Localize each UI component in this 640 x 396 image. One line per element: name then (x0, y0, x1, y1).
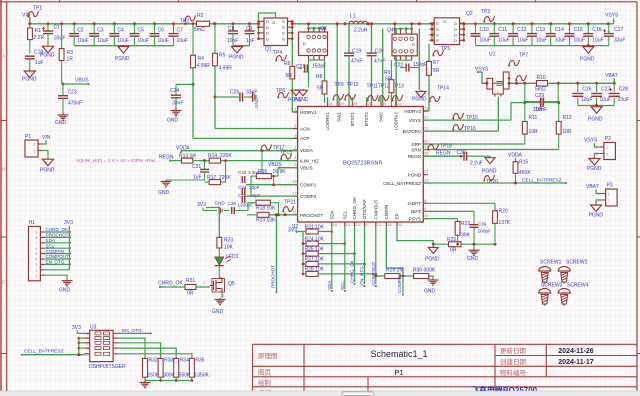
svg-text:CMPIN: CMPIN (384, 205, 389, 220)
svg-text:10: 10 (84, 351, 89, 356)
svg-text:TP16: TP16 (464, 126, 476, 132)
svg-text:GND: GND (215, 201, 226, 206)
svg-text:CHRG_OK: CHRG_OK (352, 196, 357, 220)
svg-text:33uF: 33uF (614, 38, 625, 44)
svg-text:Schematic1_1: Schematic1_1 (370, 349, 427, 359)
svg-text:P2: P2 (605, 136, 611, 142)
svg-text:EN_OTG: EN_OTG (46, 260, 65, 265)
svg-text:D: D (303, 41, 306, 46)
svg-text:4.99R: 4.99R (219, 66, 233, 72)
svg-text:SRP: SRP (412, 142, 421, 147)
svg-text:13: 13 (346, 223, 350, 227)
svg-text:VBUS: VBUS (268, 162, 282, 168)
svg-text:D: D (454, 38, 457, 43)
svg-text:C21: C21 (296, 64, 305, 70)
svg-text:CELL_BATPRESZ: CELL_BATPRESZ (24, 349, 64, 355)
svg-text:GND: GND (467, 256, 479, 262)
svg-text:R18 10K: R18 10K (256, 205, 276, 211)
svg-text:VDDA: VDDA (508, 153, 523, 159)
svg-text:U1: U1 (489, 52, 496, 58)
svg-text:10uF: 10uF (574, 38, 585, 44)
svg-text:Q3: Q3 (320, 26, 327, 32)
svg-text:TP1: TP1 (33, 6, 42, 12)
svg-text:SCREW3: SCREW3 (541, 283, 563, 289)
svg-text:2024-11-17: 2024-11-17 (558, 359, 594, 366)
svg-text:C28: C28 (619, 87, 628, 93)
svg-text:23: 23 (424, 107, 428, 111)
svg-text:3.3nF: 3.3nF (248, 170, 260, 175)
svg-text:1R: 1R (67, 57, 74, 63)
svg-text:1uF: 1uF (35, 60, 44, 66)
svg-text:HIDRV1: HIDRV1 (300, 110, 317, 115)
svg-text:D: D (266, 37, 269, 42)
svg-text:4: 4 (294, 156, 296, 160)
svg-text:20: 20 (424, 140, 428, 144)
svg-text:3V3: 3V3 (64, 220, 73, 226)
svg-text:33uF: 33uF (618, 97, 629, 103)
svg-text:D: D (266, 25, 269, 30)
svg-text:GND: GND (158, 190, 170, 196)
svg-text:7: 7 (294, 146, 296, 150)
svg-text:A: A (2, 54, 5, 59)
svg-text:C17: C17 (614, 27, 623, 33)
svg-text:29: 29 (353, 102, 357, 106)
svg-text:C10: C10 (480, 27, 489, 33)
svg-text:3V3: 3V3 (288, 228, 297, 234)
svg-text:10uF: 10uF (97, 38, 108, 44)
svg-text:GND: GND (424, 289, 436, 295)
svg-text:CHRG_OK: CHRG_OK (158, 281, 183, 287)
svg-text:10uF: 10uF (600, 97, 611, 103)
svg-text:S: S (282, 31, 285, 36)
svg-text:C5: C5 (138, 28, 145, 34)
svg-text:R2: R2 (197, 13, 204, 19)
svg-text:2: 2 (294, 124, 296, 128)
svg-text:D: D (266, 19, 269, 24)
svg-text:原理图: 原理图 (258, 352, 278, 360)
svg-text:C16: C16 (592, 27, 601, 33)
svg-text:D: D (266, 31, 269, 36)
svg-text:HIDRV2: HIDRV2 (404, 109, 421, 114)
svg-text:R29 2M: R29 2M (386, 268, 404, 274)
svg-text:D: D (442, 20, 447, 23)
svg-text:VBUS: VBUS (300, 166, 313, 171)
svg-text:GND: GND (212, 309, 224, 315)
svg-text:SCL: SCL (46, 243, 55, 248)
svg-text:R10: R10 (537, 75, 546, 81)
svg-text:0R: 0R (187, 291, 194, 297)
svg-text:TP18: TP18 (440, 144, 452, 150)
svg-text:R12: R12 (563, 115, 572, 121)
svg-text:3V3: 3V3 (72, 325, 81, 331)
svg-text:R22: R22 (461, 221, 470, 227)
svg-text:TP4: TP4 (273, 50, 282, 56)
svg-text:CHRG_OK: CHRG_OK (350, 259, 355, 283)
svg-text:C4: C4 (117, 28, 124, 34)
svg-text:100pF: 100pF (478, 229, 492, 235)
svg-text:30: 30 (340, 102, 344, 106)
svg-text:10uF: 10uF (77, 38, 88, 44)
svg-text:C25: C25 (230, 90, 239, 96)
svg-text:TP19: TP19 (280, 150, 292, 156)
svg-text:10: 10 (424, 214, 428, 218)
svg-text:R32: R32 (149, 358, 158, 364)
svg-text:24: 24 (397, 102, 401, 106)
svg-text:PGND: PGND (115, 56, 130, 62)
svg-text:C35: C35 (228, 201, 237, 206)
svg-text:10uF: 10uF (517, 38, 528, 44)
svg-text:D: D (271, 21, 276, 24)
svg-text:5: 5 (366, 223, 368, 227)
svg-text:10K: 10K (224, 245, 234, 251)
svg-text:S: S (436, 27, 439, 32)
svg-text:CELL_BATPRESZ: CELL_BATPRESZ (383, 181, 421, 186)
svg-text:C32: C32 (238, 170, 247, 175)
svg-text:1350K: 1350K (194, 373, 209, 379)
svg-text:G: G (282, 37, 285, 42)
svg-text:C3: C3 (97, 28, 104, 34)
svg-text:U3: U3 (90, 325, 97, 331)
svg-text:SDA: SDA (46, 238, 56, 243)
svg-text:470nF: 470nF (68, 101, 82, 107)
svg-text:2.2uH: 2.2uH (354, 28, 368, 34)
svg-text:CELL_BATPRESZ: CELL_BATPRESZ (522, 178, 562, 184)
svg-text:PGND: PGND (580, 57, 595, 63)
svg-text:9: 9 (424, 207, 426, 211)
svg-text:22: 22 (424, 116, 428, 120)
svg-text:TP5: TP5 (441, 46, 450, 52)
svg-text:10uF: 10uF (177, 38, 188, 44)
svg-text:C2: C2 (77, 28, 84, 34)
svg-text:4.99R: 4.99R (197, 63, 211, 69)
svg-text:D: D (454, 27, 457, 32)
svg-text:16.9K: 16.9K (273, 169, 287, 175)
svg-text:VSYS: VSYS (409, 118, 421, 123)
svg-text:R5: R5 (219, 53, 226, 59)
svg-text:SCL: SCL (340, 281, 345, 290)
svg-text:R33: R33 (164, 358, 173, 364)
svg-text:R15: R15 (519, 160, 528, 166)
svg-text:R20: R20 (499, 209, 508, 215)
svg-text:SDA: SDA (327, 280, 332, 290)
svg-text:BATDRV: BATDRV (403, 129, 422, 134)
svg-text:R34: R34 (180, 358, 189, 364)
svg-text:PGND: PGND (589, 213, 604, 219)
svg-text:33nF: 33nF (172, 101, 183, 107)
svg-text:PGND: PGND (40, 53, 55, 59)
svg-text:10uF: 10uF (498, 38, 509, 44)
svg-text:PROCHOT: PROCHOT (300, 213, 323, 218)
svg-text:P1: P1 (394, 368, 403, 377)
svg-text:D: D (454, 21, 457, 26)
svg-text:更新日期: 更新日期 (500, 346, 527, 355)
svg-text:1nF: 1nF (246, 38, 255, 44)
svg-text:PGND: PGND (40, 168, 55, 174)
svg-text:LODRV2: LODRV2 (393, 112, 398, 131)
svg-text:17: 17 (292, 192, 296, 196)
svg-text:PGND: PGND (294, 97, 309, 103)
svg-text:S: S (436, 38, 439, 43)
svg-text:SW1: SW1 (337, 112, 342, 122)
svg-text:PGND: PGND (588, 117, 603, 123)
svg-text:C36: C36 (478, 222, 487, 228)
svg-text:47nF: 47nF (351, 59, 362, 65)
svg-text:GND: GND (167, 118, 179, 124)
svg-text:EN_OTG: EN_OTG (122, 328, 142, 334)
svg-text:COMPIN: COMPIN (397, 275, 402, 293)
svg-text:30K: 30K (461, 233, 471, 239)
svg-text:CMPOUT: CMPOUT (373, 199, 378, 219)
svg-text:33: 33 (398, 223, 402, 227)
svg-text:EN_OTG: EN_OTG (360, 266, 365, 285)
svg-text:C31: C31 (192, 164, 201, 170)
svg-text:VBUS: VBUS (75, 78, 89, 84)
svg-text:R1: R1 (35, 28, 42, 34)
svg-text:VBAT: VBAT (605, 73, 618, 79)
svg-text:33uF: 33uF (54, 36, 65, 42)
svg-text:TP20: TP20 (486, 179, 498, 185)
svg-text:14: 14 (333, 223, 337, 227)
svg-text:2.2uF: 2.2uF (470, 161, 483, 167)
svg-text:S: S (282, 19, 285, 24)
svg-text:ACN: ACN (300, 126, 310, 131)
svg-text:R7: R7 (433, 60, 440, 66)
svg-text:Q2: Q2 (466, 11, 473, 17)
svg-text:5mΩ: 5mΩ (535, 87, 546, 93)
svg-text:TP3: TP3 (481, 9, 490, 15)
svg-text:10uF: 10uF (592, 38, 603, 44)
svg-text:26: 26 (368, 102, 372, 106)
svg-text:1: 1 (203, 281, 205, 285)
svg-text:11: 11 (293, 211, 297, 215)
svg-text:ILIM_HIZ: ILIM_HIZ (300, 158, 319, 163)
svg-text:R9: R9 (384, 70, 391, 76)
svg-text:TP10: TP10 (347, 82, 359, 88)
svg-text:S: S (436, 21, 439, 26)
svg-text:H1: H1 (29, 220, 36, 226)
svg-text:15: 15 (377, 223, 381, 227)
svg-text:PGND: PGND (412, 97, 427, 103)
svg-text:R19 10K: R19 10K (256, 218, 276, 224)
svg-text:SCREW1: SCREW1 (540, 260, 562, 266)
svg-text:150pF: 150pF (413, 62, 427, 68)
svg-text:220K: 220K (220, 153, 232, 159)
svg-text:Q1: Q1 (265, 47, 272, 53)
svg-text:C8: C8 (228, 26, 235, 32)
svg-text:R6: R6 (284, 61, 291, 67)
svg-text:47nF: 47nF (374, 59, 385, 65)
svg-text:V(ILIM_HIZ) = 1 V + 40 × IDPM: V(ILIM_HIZ) = 1 V + 40 × IDPM ×Rac (76, 158, 156, 164)
svg-text:CHRG_OK: CHRG_OK (46, 227, 70, 232)
svg-text:LED1: LED1 (226, 254, 239, 260)
svg-text:R17: R17 (207, 175, 216, 181)
svg-text:GND: GND (254, 97, 259, 108)
svg-text:12: 12 (356, 223, 360, 227)
svg-text:绘制: 绘制 (258, 378, 272, 387)
svg-text:16: 16 (387, 223, 391, 227)
svg-text:10uF: 10uF (138, 38, 149, 44)
svg-text:R14: R14 (208, 153, 217, 159)
svg-text:REGN: REGN (159, 155, 174, 161)
svg-text:10R: 10R (529, 129, 539, 135)
svg-text:Q5: Q5 (228, 281, 235, 287)
svg-text:C14: C14 (555, 27, 564, 33)
svg-text:OTG/VAP: OTG/VAP (362, 199, 367, 219)
svg-text:SW2: SW2 (379, 112, 384, 122)
svg-text:R30 300K: R30 300K (413, 268, 436, 274)
svg-text:TP11: TP11 (367, 84, 379, 90)
svg-text:COMPOUT: COMPOUT (46, 254, 70, 259)
svg-text:C12: C12 (517, 27, 526, 33)
svg-text:C7: C7 (177, 28, 184, 34)
svg-text:R23: R23 (224, 238, 233, 244)
svg-text:PGND: PGND (587, 166, 602, 172)
svg-text:R4: R4 (198, 56, 205, 62)
svg-text:D: D (454, 33, 457, 38)
svg-text:COMPIN: COMPIN (46, 249, 64, 254)
svg-text:BQ25723RSNR: BQ25723RSNR (343, 161, 383, 167)
svg-text:25: 25 (382, 102, 386, 106)
svg-text:1: 1 (294, 108, 296, 112)
svg-text:33nF: 33nF (246, 90, 257, 96)
svg-text:S: S (282, 25, 285, 30)
svg-text:IADPT: IADPT (407, 201, 421, 206)
svg-text:5mΩ: 5mΩ (194, 27, 205, 33)
svg-text:IBAT: IBAT (411, 209, 421, 214)
svg-text:28: 28 (424, 152, 428, 156)
svg-text:5R: 5R (433, 68, 440, 74)
svg-text:PGND: PGND (425, 257, 440, 263)
svg-text:EP: EP (395, 213, 400, 219)
svg-text:S: S (436, 33, 439, 38)
svg-text:3: 3 (294, 134, 296, 138)
svg-text:10uF: 10uF (480, 38, 491, 44)
svg-text:COMPOUT: COMPOUT (371, 261, 376, 285)
svg-text:VDDA: VDDA (300, 148, 314, 153)
svg-text:Q4: Q4 (387, 28, 394, 34)
svg-text:PGND: PGND (22, 77, 37, 83)
svg-text:10uF: 10uF (536, 38, 547, 44)
svg-text:C9: C9 (246, 26, 253, 32)
svg-text:31: 31 (329, 102, 333, 106)
svg-text:TP6: TP6 (276, 88, 285, 94)
svg-text:P1: P1 (25, 134, 31, 140)
svg-text:10uF: 10uF (158, 38, 169, 44)
svg-text:C11: C11 (498, 27, 507, 33)
svg-text:COMP2: COMP2 (300, 194, 317, 199)
svg-text:VSYS: VSYS (584, 138, 598, 144)
svg-text:图页: 图页 (258, 369, 272, 377)
svg-text:8: 8 (424, 199, 426, 203)
svg-text:100nF: 100nF (533, 107, 547, 113)
svg-text:2.2R: 2.2R (34, 35, 45, 41)
svg-text:C26: C26 (582, 87, 591, 93)
svg-text:5R: 5R (286, 73, 293, 79)
svg-text:C23: C23 (68, 90, 77, 96)
svg-text:PGND: PGND (482, 169, 497, 175)
svg-text:R13 0R: R13 0R (179, 154, 196, 160)
svg-text:GND: GND (55, 120, 67, 126)
svg-text:PGND: PGND (408, 173, 422, 178)
svg-text:21: 21 (424, 127, 428, 131)
svg-text:5: 5 (294, 163, 296, 167)
svg-text:5R: 5R (317, 86, 324, 92)
svg-text:B: B (2, 167, 5, 172)
svg-text:PGND: PGND (229, 55, 244, 61)
svg-text:SCL: SCL (342, 210, 347, 219)
svg-text:2: 2 (497, 90, 499, 94)
svg-text:C15: C15 (574, 27, 583, 33)
svg-text:REGN: REGN (408, 154, 421, 159)
svg-text:TP9: TP9 (335, 82, 344, 88)
svg-text:R31: R31 (186, 278, 195, 284)
svg-text:0R: 0R (450, 248, 457, 254)
svg-text:LODRV1: LODRV1 (325, 112, 330, 131)
svg-text:18: 18 (424, 179, 428, 183)
svg-text:SCREW2: SCREW2 (566, 260, 588, 266)
svg-text:VSYS: VSYS (605, 13, 619, 19)
svg-text:TP21: TP21 (284, 200, 296, 206)
svg-text:450K: 450K (519, 170, 531, 176)
svg-text:COMP1: COMP1 (300, 183, 317, 188)
svg-text:R11: R11 (529, 115, 538, 121)
svg-text:R35: R35 (195, 358, 204, 364)
svg-text:TP7: TP7 (519, 53, 528, 59)
svg-text:物料编号: 物料编号 (500, 368, 527, 377)
svg-text:SDA: SDA (329, 209, 334, 219)
svg-text:SCREW4: SCREW4 (567, 283, 589, 289)
svg-text:BTST1: BTST1 (350, 112, 355, 127)
svg-text:ACP: ACP (300, 136, 309, 141)
svg-text:PSYS: PSYS (409, 216, 421, 221)
svg-text:DSHP05TSGER: DSHP05TSGER (89, 364, 126, 370)
svg-text:TP14: TP14 (437, 86, 449, 92)
svg-text:TP15: TP15 (466, 115, 478, 121)
svg-text:10uF: 10uF (555, 38, 566, 44)
svg-text:R3: R3 (67, 50, 74, 56)
svg-text:TP12: TP12 (378, 84, 390, 90)
svg-text:C1: C1 (54, 25, 61, 31)
svg-text:10uF: 10uF (117, 38, 128, 44)
svg-text:C24: C24 (170, 88, 179, 94)
svg-text:C13: C13 (536, 27, 545, 33)
svg-text:BTST2: BTST2 (364, 112, 369, 127)
svg-text:C6: C6 (158, 28, 165, 34)
svg-text:创建日期: 创建日期 (500, 357, 527, 366)
svg-text:3V3: 3V3 (197, 202, 206, 208)
svg-text:2024-11-26: 2024-11-26 (558, 348, 594, 355)
svg-text:PROCHOT: PROCHOT (271, 265, 276, 288)
svg-text:16: 16 (292, 180, 296, 184)
svg-text:VBAT: VBAT (586, 184, 599, 190)
svg-text:D: D (412, 42, 415, 47)
svg-text:R8: R8 (316, 74, 323, 80)
svg-text:C19: C19 (352, 49, 361, 55)
svg-text:10R: 10R (563, 129, 573, 135)
svg-text:PROCHOT: PROCHOT (46, 233, 69, 238)
svg-text:SRN: SRN (411, 147, 421, 152)
svg-text:L1: L1 (350, 14, 356, 20)
svg-text:27: 27 (424, 170, 428, 174)
svg-text:REGN: REGN (436, 151, 451, 157)
svg-text:GND: GND (59, 288, 71, 294)
svg-text:137K: 137K (499, 220, 511, 226)
svg-text:R25: R25 (447, 237, 456, 243)
svg-text:VIN: VIN (42, 135, 51, 141)
svg-text:P3: P3 (607, 183, 613, 189)
svg-text:10uF: 10uF (581, 97, 592, 103)
